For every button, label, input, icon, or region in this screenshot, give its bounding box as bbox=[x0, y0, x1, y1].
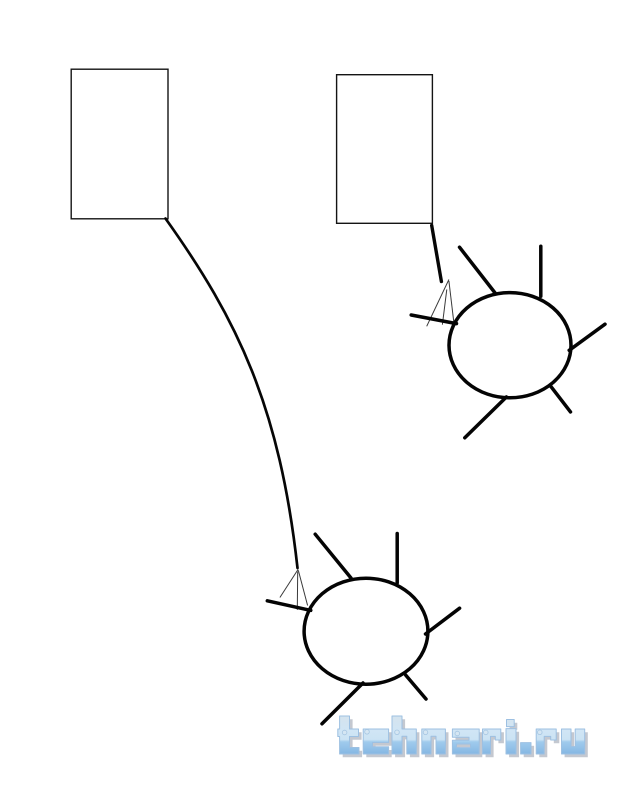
spoke S1-top bbox=[539, 246, 543, 296]
spoke S2-right bbox=[426, 608, 460, 634]
spoke S1-bottomright bbox=[550, 386, 570, 412]
box B2 (top-right rectangle) bbox=[337, 75, 433, 224]
spoke S2-left bbox=[267, 601, 311, 611]
box B1 (top-left rectangle) bbox=[71, 69, 168, 219]
node B (thin triangle marker at burr S2) bbox=[280, 569, 308, 610]
node A (thin triangle marker at burr S1) bbox=[427, 280, 455, 327]
burr S2 (lower circle body) bbox=[304, 578, 428, 684]
spoke S1-topleft bbox=[460, 247, 496, 293]
wire (short line from box B2 to burr S1) bbox=[432, 226, 442, 282]
spoke S1-bottomleft bbox=[465, 397, 507, 438]
spoke S2-bottomleft bbox=[322, 683, 363, 724]
spoke S2-bottomright bbox=[406, 675, 426, 699]
spoke S2-top bbox=[395, 534, 399, 584]
spoke S1-left bbox=[411, 315, 456, 324]
burr S1 (upper circle body) bbox=[449, 293, 571, 398]
wire (long curved string from box B1 to burr S2) bbox=[166, 219, 298, 569]
spoke S2-topleft bbox=[315, 534, 351, 578]
spoke S1-right bbox=[569, 324, 605, 350]
watermark tehnari.ru bbox=[338, 716, 588, 757]
